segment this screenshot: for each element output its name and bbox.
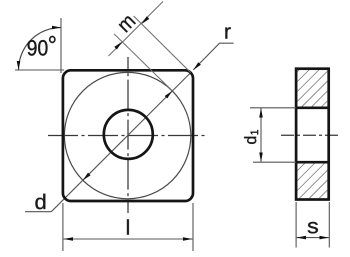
d1 dimension line xyxy=(260,108,262,162)
s extension line right xyxy=(328,202,330,248)
hole circle xyxy=(104,110,153,159)
label 90deg xyxy=(28,36,56,56)
d1 extension line top xyxy=(250,107,296,109)
l extension line left xyxy=(62,203,64,251)
90 arc arrow top xyxy=(52,26,61,30)
90 deg extension line horizontal xyxy=(15,69,64,71)
r leader arrow xyxy=(193,62,201,70)
centerline horizontal (side view) xyxy=(281,134,341,136)
90 deg extension line vertical xyxy=(60,18,62,73)
l dimension line xyxy=(63,238,192,240)
d1 arrow top xyxy=(259,108,263,117)
r leader line xyxy=(193,43,233,70)
s arrow left xyxy=(297,236,306,240)
side view rectangle xyxy=(296,69,329,200)
d1 arrow bottom xyxy=(259,153,263,162)
hole edge line bottom xyxy=(296,161,329,164)
hole edge line top xyxy=(296,106,329,109)
square outline xyxy=(63,70,193,201)
90 deg arc xyxy=(19,28,62,71)
hatch top band xyxy=(298,70,328,107)
m extension line tangent to circle xyxy=(114,34,172,91)
leader tail under d xyxy=(25,211,51,213)
l extension line right xyxy=(192,203,194,251)
s dimension line xyxy=(297,237,329,239)
label r xyxy=(225,27,230,38)
centerline horizontal (main view) xyxy=(48,135,208,137)
dimension d arrow lower xyxy=(83,173,91,181)
dimension d arrow upper xyxy=(165,91,173,99)
m extension line through corner xyxy=(134,16,191,73)
hatch bottom band xyxy=(298,164,328,199)
label d xyxy=(35,194,45,209)
m arrow upper xyxy=(142,16,150,24)
d1 extension line bottom xyxy=(253,161,296,163)
90 arc arrow bottom xyxy=(17,61,21,70)
s arrow right xyxy=(320,236,329,240)
m dimension line xyxy=(109,2,164,57)
label s xyxy=(308,222,318,233)
l arrow left xyxy=(63,237,73,241)
s extension line left xyxy=(295,202,297,248)
diagonal line (dimension d leader) xyxy=(51,73,190,212)
centerline vertical (main view) xyxy=(127,57,129,213)
m arrow lower xyxy=(114,42,122,50)
label d1 xyxy=(244,130,258,144)
label m xyxy=(119,16,136,32)
inscribed circle xyxy=(64,72,190,198)
label l xyxy=(127,219,129,234)
l arrow right xyxy=(183,237,193,241)
